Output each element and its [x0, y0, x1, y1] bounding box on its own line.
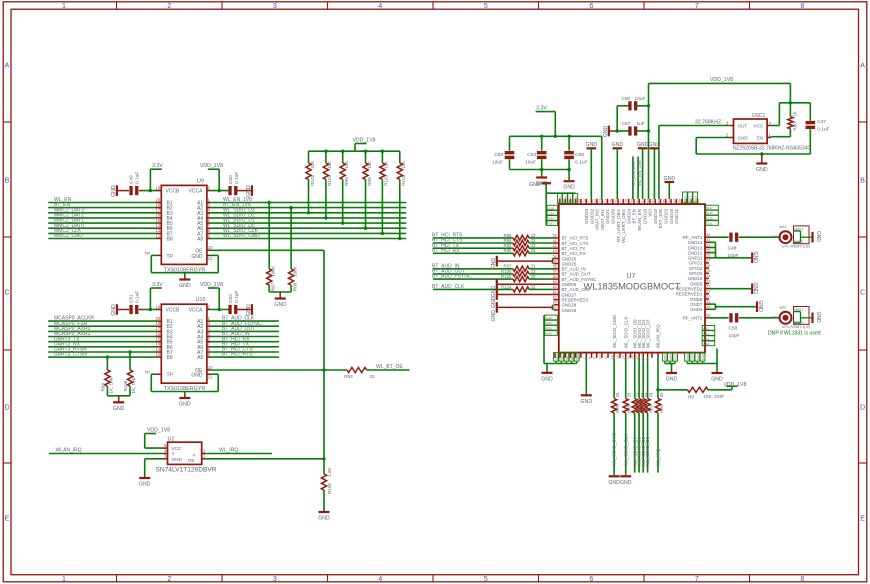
ground tap U7 pin 22 [709, 282, 758, 294]
svg-text:B8: B8 [167, 237, 173, 243]
svg-text:E: E [860, 516, 865, 523]
resistor R105 10K pull-up [397, 151, 406, 240]
svg-text:SIG: SIG [771, 235, 778, 239]
ground below R87 R88 [269, 292, 291, 308]
svg-text:G06: G06 [560, 354, 564, 360]
ground tap U7 pins 54-55 [491, 256, 554, 270]
svg-text:GND2: GND2 [793, 320, 804, 324]
supply 3.3V at U9 [149, 163, 164, 192]
wire WL_IRQ with resistor R84 33 [655, 358, 664, 473]
wire RF_ANT2 with capacitor C58 10pF [709, 313, 779, 339]
svg-text:WL_EN_1V8: WL_EN_1V8 [637, 160, 642, 186]
ground at U7 bottom-right [711, 364, 723, 383]
svg-text:TP: TP [145, 251, 151, 256]
ground below U9 [179, 273, 191, 289]
capacitor C49 0.1uF [118, 172, 157, 196]
svg-text:OUT: OUT [738, 124, 748, 129]
svg-text:GND: GND [139, 482, 151, 488]
svg-text:5: 5 [484, 576, 488, 583]
U7 top edge right corner pin boxes [683, 192, 698, 203]
svg-text:VCCA: VCCA [189, 189, 204, 195]
supply VDD_1V8 at pull-up rail [352, 137, 375, 151]
svg-text:GND: GND [318, 516, 330, 522]
svg-text:G33: G33 [558, 196, 562, 202]
svg-text:G15: G15 [674, 354, 678, 360]
ground at C51 [111, 304, 117, 316]
svg-text:33: 33 [531, 248, 536, 253]
net stub BT_EN_1V8 [631, 157, 636, 199]
svg-text:20: 20 [706, 295, 710, 299]
svg-text:100K: 100K [292, 265, 297, 277]
svg-text:A8: A8 [197, 355, 203, 361]
svg-text:GND: GND [581, 399, 593, 405]
svg-text:3: 3 [273, 3, 277, 10]
svg-text:58: 58 [553, 275, 557, 279]
svg-text:R88: R88 [292, 282, 297, 291]
svg-text:GND: GND [752, 252, 758, 264]
svg-text:BT_AUD_FSYNC: BT_AUD_FSYNC [432, 274, 472, 280]
svg-text:86: 86 [667, 199, 671, 203]
wire module GND drop left [581, 358, 593, 405]
svg-text:GND32: GND32 [589, 209, 594, 225]
wire OSC1 VCC to VDD node [771, 101, 810, 125]
svg-text:19: 19 [156, 185, 161, 190]
svg-text:73: 73 [598, 199, 602, 203]
capacitor C50 0.1uF [210, 172, 251, 196]
svg-text:GND1: GND1 [793, 227, 804, 231]
svg-text:GND: GND [608, 480, 620, 486]
resistor R102 10K pull-up [306, 151, 315, 214]
svg-text:33: 33 [369, 374, 375, 379]
ground below U10 [179, 392, 191, 408]
svg-text:63: 63 [553, 301, 557, 305]
svg-text:54: 54 [553, 254, 557, 258]
capacitor C59 10uF [492, 136, 514, 169]
svg-text:10K: 10K [310, 160, 315, 169]
svg-text:R108: R108 [123, 380, 128, 391]
wire BT_HCI_RTS with resistor R85 33 [432, 233, 554, 241]
svg-text:BT_EN_1V8: BT_EN_1V8 [631, 161, 636, 186]
svg-text:10K: 10K [401, 160, 406, 169]
svg-text:G10: G10 [704, 342, 710, 346]
svg-text:10: 10 [208, 245, 213, 250]
svg-text:SN74LV1T126DBVR: SN74LV1T126DBVR [155, 467, 216, 474]
frame row letters [4, 63, 865, 523]
svg-text:G03: G03 [663, 354, 667, 360]
svg-text:WL_SDIO_D3: WL_SDIO_D3 [645, 436, 650, 466]
svg-text:U9: U9 [197, 178, 204, 184]
ground below WL_SDIO_CLK drop [620, 475, 632, 486]
wire WL_IRQ output [206, 448, 272, 454]
svg-text:C60: C60 [622, 96, 631, 102]
resistor R93 33 series [344, 367, 375, 378]
svg-text:WL1835MODGBMOCT: WL1835MODGBMOCT [583, 282, 680, 292]
svg-text:G07: G07 [565, 354, 569, 360]
svg-text:76: 76 [614, 199, 618, 203]
svg-text:8: 8 [588, 357, 592, 359]
svg-text:GND: GND [246, 304, 252, 316]
svg-text:80: 80 [635, 199, 639, 203]
U7 right edge bottom GND pin boxes [702, 326, 715, 346]
svg-text:1.0K: 1.0K [327, 467, 332, 477]
ground at C52 [246, 304, 252, 316]
svg-text:88: 88 [678, 199, 682, 203]
svg-text:TP: TP [145, 370, 151, 375]
ground below WL_SDIO_CMD drop [608, 475, 620, 486]
svg-text:RF_ANT2: RF_ANT2 [683, 316, 703, 321]
ground at U7 bottom-middle [666, 364, 678, 383]
svg-text:GND: GND [620, 480, 632, 486]
svg-text:A8: A8 [197, 237, 203, 243]
svg-text:WL_IRQ: WL_IRQ [219, 448, 238, 454]
svg-text:5: 5 [484, 3, 488, 10]
svg-text:WL_SDIO_CMD: WL_SDIO_CMD [223, 233, 260, 239]
svg-text:VCC: VCC [172, 446, 183, 451]
svg-text:G04: G04 [668, 354, 672, 360]
svg-text:10K: 10K [384, 160, 389, 169]
svg-text:G30: G30 [548, 217, 554, 221]
svg-text:C: C [860, 290, 865, 297]
svg-text:GND: GND [666, 377, 678, 383]
resistor R103 10K pull-up [380, 151, 389, 235]
svg-text:23: 23 [706, 279, 710, 283]
svg-text:B8: B8 [167, 355, 173, 361]
U7 left pin stubs names numbers [553, 234, 597, 313]
svg-text:U.FL-R-SMT-1(10): U.FL-R-SMT-1(10) [782, 325, 810, 329]
svg-text:NZ2520SB-32.768KHZ-NSA3534C: NZ2520SB-32.768KHZ-NSA3534C [733, 146, 811, 152]
svg-text:R93: R93 [344, 374, 353, 379]
svg-text:BT_UART_DBG: BT_UART_DBG [616, 209, 621, 242]
ground at C49 [111, 185, 117, 197]
wire WL_SDIO_D2 with resistor R82 33 [641, 358, 650, 473]
svg-text:TXS0108ERGYR: TXS0108ERGYR [164, 267, 206, 273]
svg-text:0.1uF: 0.1uF [575, 160, 587, 166]
resistor R87 100K pull-down [267, 201, 276, 292]
svg-text:BT_HCI_RTS: BT_HCI_RTS [222, 352, 253, 358]
svg-text:G38: G38 [701, 354, 705, 360]
svg-text:UART3_CTSN: UART3_CTSN [54, 352, 87, 358]
svg-text:9: 9 [593, 357, 597, 359]
svg-text:6: 6 [589, 576, 593, 583]
svg-text:GND6: GND6 [690, 307, 703, 312]
svg-text:VDD_1V8: VDD_1V8 [147, 427, 170, 433]
resistor R9 10K DNP to VDD_1V8 [656, 387, 732, 399]
svg-text:6: 6 [589, 3, 593, 10]
svg-text:75: 75 [609, 199, 613, 203]
svg-text:R102: R102 [310, 174, 315, 185]
ground at C50 [246, 185, 252, 197]
svg-text:BT_HCI_RX: BT_HCI_RX [432, 248, 460, 254]
svg-text:33: 33 [531, 284, 536, 289]
svg-text:VBAT_IN1: VBAT_IN1 [600, 209, 605, 230]
pull-up rail wire [309, 150, 400, 153]
svg-text:72: 72 [593, 199, 597, 203]
svg-text:GND: GND [191, 373, 203, 379]
svg-text:11: 11 [604, 356, 608, 359]
svg-text:GND: GND [637, 142, 649, 148]
U9 input wires MMC2 bus [48, 197, 157, 239]
svg-text:G34: G34 [546, 321, 552, 325]
capacitor C60 10uF [617, 96, 648, 111]
ground bracket U7 pins 31-28 [709, 242, 758, 263]
svg-text:G33: G33 [546, 316, 552, 320]
svg-text:U10: U10 [196, 297, 206, 303]
svg-text:C52: C52 [228, 294, 234, 303]
svg-text:GND16: GND16 [669, 209, 674, 225]
svg-text:R87: R87 [271, 282, 276, 291]
svg-text:10: 10 [208, 365, 213, 370]
resistor R88 100K pull-down [289, 206, 298, 292]
wire U9 OE vertical net [210, 250, 325, 458]
svg-text:78: 78 [625, 199, 629, 203]
svg-text:10uF: 10uF [635, 96, 646, 102]
IC U2 SN74LV1T126DBVR body [155, 436, 216, 473]
supply VDD_1V8 at U2 [145, 427, 170, 448]
svg-text:BT_EN: BT_EN [632, 209, 637, 224]
resistor R50 1K [788, 103, 798, 137]
svg-text:33: 33 [659, 392, 664, 397]
svg-text:G37: G37 [696, 354, 700, 360]
svg-text:WLAN_IRQ: WLAN_IRQ [56, 448, 82, 454]
svg-text:MMC2_CMD: MMC2_CMD [54, 233, 83, 239]
svg-text:GND: GND [752, 282, 758, 294]
ground at U2 [139, 459, 164, 488]
svg-text:GND: GND [664, 176, 676, 182]
svg-text:33: 33 [531, 274, 536, 279]
ground at U7 top-left [529, 182, 575, 193]
svg-text:10K: 10K [367, 160, 372, 169]
svg-text:G02: G02 [575, 354, 579, 360]
svg-text:G34: G34 [563, 196, 567, 202]
svg-text:1K: 1K [793, 110, 798, 117]
cap rail bottom wire [510, 168, 571, 171]
svg-text:G22: G22 [694, 196, 698, 202]
svg-text:19: 19 [156, 304, 161, 309]
wire BT_AUD_OUT with resistor R100 33 [432, 269, 554, 277]
svg-text:D: D [860, 405, 865, 412]
antenna connector ANT2 [771, 305, 821, 329]
svg-text:C56: C56 [575, 152, 584, 158]
svg-text:WL_UART_DBG: WL_UART_DBG [621, 209, 626, 243]
svg-text:33: 33 [615, 392, 620, 397]
svg-text:0.1uF: 0.1uF [135, 291, 141, 303]
svg-text:C58: C58 [729, 326, 738, 332]
svg-text:GND29: GND29 [584, 209, 589, 225]
svg-text:GND: GND [111, 304, 117, 316]
wire U10 OE to R93 [210, 369, 347, 371]
svg-text:C49: C49 [129, 175, 135, 184]
svg-text:VDD_1V8: VDD_1V8 [723, 382, 746, 388]
cap rail top wire [510, 135, 602, 138]
svg-text:GND2: GND2 [793, 240, 804, 244]
svg-text:C47: C47 [817, 119, 826, 125]
svg-text:E: E [5, 516, 10, 523]
resistor R101 10K pull-up [323, 151, 332, 219]
wire BT_AUD_FSYNC with resistor R125 33 [432, 274, 554, 282]
svg-text:R96: R96 [503, 248, 512, 253]
svg-text:OSC1: OSC1 [752, 113, 766, 119]
svg-text:R83: R83 [649, 404, 654, 412]
supply rail VDD_1V8 top [649, 77, 791, 103]
U7 bottom pin stubs and numbers [551, 314, 661, 359]
svg-text:7: 7 [695, 576, 699, 583]
wire OSC1 GND return [696, 138, 810, 156]
svg-text:VDD_1V8: VDD_1V8 [352, 137, 375, 143]
ground tap U7 pin 59 [491, 279, 554, 297]
svg-text:10K: 10K [344, 160, 349, 169]
U7 bottom edge left corner pin boxes [544, 353, 579, 364]
svg-text:SIG: SIG [771, 315, 778, 319]
svg-text:GND30: GND30 [611, 209, 616, 225]
svg-text:GND: GND [172, 457, 183, 462]
wire BT_AUD_CLK with resistor R124 33 [432, 284, 554, 292]
svg-text:OE: OE [188, 458, 195, 463]
U7 top edge left corner pin boxes [557, 193, 577, 203]
svg-text:G12: G12 [704, 332, 710, 336]
svg-text:100K: 100K [271, 265, 276, 277]
svg-text:GND: GND [563, 185, 575, 191]
svg-text:G01: G01 [570, 354, 574, 360]
svg-text:85: 85 [662, 199, 666, 203]
ground at module top 2 [612, 142, 624, 199]
svg-text:R101: R101 [327, 174, 332, 185]
svg-text:81: 81 [641, 199, 645, 203]
svg-text:TXS0108ERGYR: TXS0108ERGYR [164, 386, 206, 392]
svg-text:13: 13 [616, 355, 620, 359]
svg-text:79: 79 [630, 199, 634, 203]
svg-text:WLAN_IRQ: WLAN_IRQ [656, 324, 661, 348]
svg-text:R89: R89 [100, 383, 105, 392]
svg-text:G35: G35 [569, 196, 573, 202]
svg-text:82: 82 [646, 199, 650, 203]
svg-text:EN: EN [757, 136, 763, 141]
svg-text:33: 33 [627, 392, 632, 397]
svg-text:WL_BT_OE: WL_BT_OE [376, 364, 403, 370]
U10 output wires BT bus [210, 316, 279, 358]
svg-text:VDD_1V8: VDD_1V8 [200, 163, 223, 169]
svg-text:G11: G11 [704, 337, 710, 341]
svg-text:VCCA: VCCA [189, 308, 204, 314]
svg-text:G21: G21 [707, 222, 713, 226]
svg-text:10: 10 [598, 355, 602, 359]
svg-text:VDD_1V8: VDD_1V8 [200, 282, 223, 288]
svg-text:ant1: ant1 [780, 225, 787, 229]
note DNP if WL1831 is used [768, 331, 821, 337]
svg-text:33: 33 [649, 392, 654, 397]
resistor R98 10K pull-up [363, 151, 372, 230]
svg-text:7: 7 [695, 3, 699, 10]
svg-text:1: 1 [62, 576, 66, 583]
svg-text:C59: C59 [494, 152, 503, 158]
svg-text:84: 84 [657, 199, 661, 203]
wire WL_SDIO_CLK with resistor R78 33 [623, 358, 632, 475]
svg-text:GND: GND [274, 302, 286, 308]
svg-text:U2: U2 [168, 436, 175, 442]
svg-text:11: 11 [208, 375, 213, 380]
svg-text:61: 61 [553, 290, 557, 294]
svg-text:R50: R50 [793, 122, 798, 131]
svg-text:VDD_1V8: VDD_1V8 [710, 77, 733, 83]
wire WLAN_IRQ input [49, 448, 164, 454]
svg-text:C48: C48 [728, 246, 737, 252]
svg-text:GND: GND [111, 185, 117, 197]
svg-text:G19: G19 [707, 211, 713, 215]
ground at module top 4 [649, 142, 661, 199]
svg-text:GND: GND [612, 142, 624, 148]
U7 bottom edge right corner pin boxes [685, 349, 717, 364]
ground at C57 [603, 126, 609, 138]
svg-text:G05: G05 [554, 354, 558, 360]
svg-text:10K: 10K [327, 160, 332, 169]
ground at U7 bottom-left [541, 364, 553, 383]
svg-text:B: B [860, 178, 865, 185]
svg-text:25: 25 [706, 269, 710, 273]
OSC1 pin stubs and numbers [726, 120, 772, 137]
svg-text:GND: GND [529, 182, 541, 188]
svg-text:GND: GND [246, 185, 252, 197]
U2 pin stubs and numbers [164, 443, 207, 459]
svg-text:GND24: GND24 [626, 209, 631, 225]
svg-text:GND31: GND31 [605, 209, 610, 225]
svg-text:G36: G36 [546, 332, 552, 336]
svg-text:19: 19 [706, 300, 710, 304]
svg-text:WL_SDIO_D3: WL_SDIO_D3 [645, 319, 650, 348]
supply VDD_1V8 at U9 [200, 163, 223, 192]
svg-text:G21: G21 [689, 196, 693, 202]
svg-text:26: 26 [706, 264, 710, 268]
svg-text:2: 2 [167, 3, 171, 10]
ground below C53 [536, 170, 548, 188]
U7 right pin stubs names numbers [676, 233, 711, 321]
svg-text:1uF: 1uF [637, 121, 645, 127]
svg-text:3.3V: 3.3V [536, 106, 547, 112]
svg-text:R106: R106 [327, 483, 332, 494]
svg-text:GND1: GND1 [793, 308, 804, 312]
svg-text:59: 59 [553, 280, 557, 284]
resistor R89 1K DNP [100, 355, 113, 395]
svg-text:GND: GND [179, 402, 191, 408]
svg-text:83: 83 [651, 199, 655, 203]
svg-text:G28: G28 [548, 206, 554, 210]
wire BT_HCI_TX with resistor R92 33 [432, 243, 554, 251]
svg-text:24: 24 [706, 274, 710, 278]
svg-text:R99: R99 [344, 177, 349, 186]
svg-text:0.1uF: 0.1uF [234, 172, 240, 184]
svg-text:4: 4 [378, 576, 382, 583]
svg-text:70: 70 [582, 199, 586, 203]
svg-text:GND: GND [586, 142, 598, 148]
ground at module top 5 [664, 176, 676, 199]
wire WL_SDIO_D0 with resistor R80 33 [632, 358, 641, 473]
U9 pin stubs and pin numbers [145, 185, 213, 260]
svg-text:A: A [860, 63, 865, 70]
svg-text:GND: GND [757, 300, 763, 312]
antenna connector ANT1 [771, 225, 821, 249]
ground at module top 1 [586, 142, 598, 199]
svg-text:GND: GND [711, 377, 723, 383]
svg-text:U7: U7 [627, 273, 636, 280]
svg-text:1K, DNP: 1K, DNP [109, 376, 114, 394]
svg-text:R103: R103 [384, 174, 389, 185]
U9 TP-OE green outline and part label [151, 255, 218, 273]
svg-text:GND15: GND15 [674, 209, 679, 225]
supply 3.3V at module caps [536, 106, 556, 137]
svg-text:GND: GND [113, 406, 125, 412]
svg-text:U.FL-R-SMT-1(10): U.FL-R-SMT-1(10) [782, 244, 810, 248]
svg-text:GND: GND [491, 310, 497, 322]
wire OSC1 EN to R50 [771, 136, 790, 138]
svg-text:32.768KHZ: 32.768KHZ [695, 119, 721, 125]
